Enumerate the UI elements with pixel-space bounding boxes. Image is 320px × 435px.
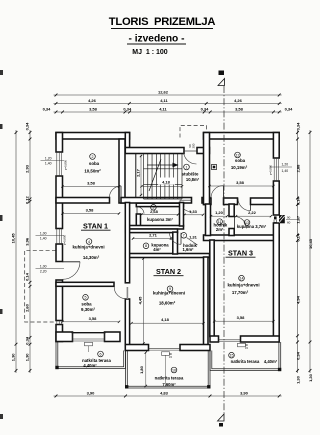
svg-text:0,34: 0,34 (123, 107, 132, 112)
svg-text:4,18: 4,18 (161, 317, 170, 322)
svg-text:STAN 1: STAN 1 (83, 222, 108, 231)
svg-text:0,34: 0,34 (25, 122, 30, 131)
svg-text:0,34: 0,34 (295, 351, 300, 360)
svg-text:2,22: 2,22 (248, 210, 257, 215)
svg-text:1: 1 (186, 165, 188, 169)
svg-text:9,30m²: 9,30m² (81, 307, 95, 312)
svg-text:18,60m²: 18,60m² (159, 300, 176, 305)
svg-text:7,60m²: 7,60m² (162, 382, 176, 387)
svg-text:3,58: 3,58 (235, 107, 244, 112)
svg-text:3,58: 3,58 (89, 316, 98, 321)
svg-text:- izvedeno -: - izvedeno - (128, 34, 184, 45)
svg-text:p=0,800: p=0,800 (64, 159, 68, 170)
svg-text:10,19m²: 10,19m² (231, 165, 248, 170)
svg-text:1,6m²: 1,6m² (183, 247, 195, 252)
svg-text:0,14: 0,14 (295, 233, 300, 242)
svg-text:1,00: 1,00 (40, 265, 47, 269)
svg-text:3,58: 3,58 (237, 315, 246, 320)
svg-text:8: 8 (145, 244, 147, 248)
svg-text:4,45: 4,45 (138, 296, 143, 305)
svg-text:stubište: stubište (182, 171, 199, 176)
svg-text:1,31: 1,31 (189, 235, 198, 240)
svg-text:60: 60 (287, 221, 291, 225)
svg-text:15: 15 (230, 354, 234, 358)
svg-text:3,90: 3,90 (240, 391, 249, 396)
svg-text:2,93: 2,93 (25, 164, 30, 173)
svg-text:3,90: 3,90 (87, 391, 96, 396)
svg-text:2,68: 2,68 (150, 209, 159, 214)
svg-text:7: 7 (183, 234, 185, 238)
svg-text:4m²: 4m² (153, 247, 161, 252)
svg-text:p=0,800: p=0,800 (63, 234, 67, 245)
svg-text:0,14: 0,14 (25, 272, 30, 281)
svg-text:4: 4 (88, 240, 90, 244)
svg-text:10,45: 10,45 (308, 238, 313, 249)
svg-text:0,14: 0,14 (295, 197, 300, 206)
svg-text:TLORIS PRIZEMLJA: TLORIS PRIZEMLJA (109, 16, 216, 28)
svg-text:1,67: 1,67 (295, 215, 300, 224)
svg-text:1,30: 1,30 (25, 353, 30, 362)
svg-text:0,34: 0,34 (285, 107, 294, 112)
svg-text:12: 12 (236, 153, 240, 157)
svg-text:10,45: 10,45 (11, 233, 16, 244)
svg-text:1,20: 1,20 (215, 210, 224, 215)
svg-text:10: 10 (172, 368, 176, 372)
svg-text:0,34: 0,34 (295, 122, 300, 131)
svg-text:2,88: 2,88 (295, 164, 300, 173)
svg-text:0,12: 0,12 (25, 195, 30, 204)
svg-text:1,30: 1,30 (295, 375, 300, 384)
svg-text:soba: soba (81, 302, 92, 307)
svg-text:4,26: 4,26 (88, 98, 97, 103)
svg-text:kuhinja+dnevni: kuhinja+dnevni (72, 245, 104, 250)
svg-text:200: 200 (192, 143, 196, 148)
svg-text:MJ 1 : 100: MJ 1 : 100 (132, 49, 168, 56)
svg-text:17,70m²: 17,70m² (232, 290, 249, 295)
svg-text:1,30: 1,30 (11, 353, 16, 362)
svg-text:2: 2 (92, 155, 94, 159)
svg-text:4,40m²: 4,40m² (83, 363, 97, 368)
svg-text:10,8m²: 10,8m² (186, 177, 200, 182)
svg-text:2,17: 2,17 (136, 168, 141, 177)
svg-text:4,94: 4,94 (295, 295, 300, 304)
svg-text:kuhinja+dnevni: kuhinja+dnevni (153, 291, 185, 296)
svg-text:STAN 3: STAN 3 (228, 249, 253, 258)
svg-text:14,30m²: 14,30m² (83, 255, 100, 260)
svg-text:kuhinja+dnevni: kuhinja+dnevni (227, 283, 259, 288)
svg-text:STAN 2: STAN 2 (156, 267, 181, 276)
svg-text:4,11: 4,11 (159, 107, 167, 112)
svg-text:natkrita terasa: natkrita terasa (82, 358, 111, 363)
svg-text:2,20: 2,20 (40, 270, 47, 274)
svg-text:2m²: 2m² (216, 227, 224, 232)
svg-text:soba: soba (235, 158, 246, 163)
svg-text:5: 5 (85, 296, 87, 300)
svg-text:0,34: 0,34 (43, 107, 52, 112)
svg-text:3,58: 3,58 (236, 180, 245, 185)
svg-text:1,40: 1,40 (282, 169, 289, 173)
svg-text:6: 6 (100, 352, 102, 356)
svg-text:10,50m²: 10,50m² (84, 168, 101, 173)
svg-text:1,40: 1,40 (45, 162, 52, 166)
svg-text:3,58: 3,58 (86, 208, 95, 213)
svg-text:4,83: 4,83 (160, 391, 169, 396)
svg-text:12,62: 12,62 (158, 90, 169, 95)
svg-text:natkrita terasa: natkrita terasa (231, 359, 260, 364)
svg-text:1,33: 1,33 (189, 209, 198, 214)
svg-text:3,58: 3,58 (87, 181, 96, 186)
svg-text:4,11: 4,11 (160, 98, 168, 103)
svg-text:2,71: 2,71 (149, 233, 158, 238)
svg-text:2,60: 2,60 (25, 303, 30, 312)
svg-text:soba: soba (89, 161, 100, 166)
svg-text:90: 90 (287, 216, 291, 220)
svg-text:1,20: 1,20 (282, 163, 289, 167)
svg-text:1,80: 1,80 (139, 365, 144, 374)
svg-text:0,34: 0,34 (201, 107, 210, 112)
svg-text:1,30: 1,30 (308, 373, 313, 382)
svg-text:4,40m²: 4,40m² (264, 359, 278, 364)
svg-text:kupaona 3m²: kupaona 3m² (147, 217, 173, 222)
svg-text:1,00: 1,00 (40, 232, 47, 236)
svg-text:4,26: 4,26 (234, 98, 243, 103)
svg-text:p=0,800: p=0,800 (269, 164, 273, 175)
svg-text:kupaona 3,7m²: kupaona 3,7m² (237, 224, 267, 229)
svg-text:1,20: 1,20 (45, 157, 52, 161)
svg-text:0,34: 0,34 (25, 336, 30, 345)
svg-text:natkrita terasa: natkrita terasa (155, 376, 184, 381)
svg-text:4,18: 4,18 (162, 179, 171, 184)
svg-text:1,40: 1,40 (40, 237, 47, 241)
svg-text:14: 14 (240, 277, 244, 281)
svg-text:3,96: 3,96 (25, 237, 30, 246)
svg-text:3,58: 3,58 (89, 107, 98, 112)
